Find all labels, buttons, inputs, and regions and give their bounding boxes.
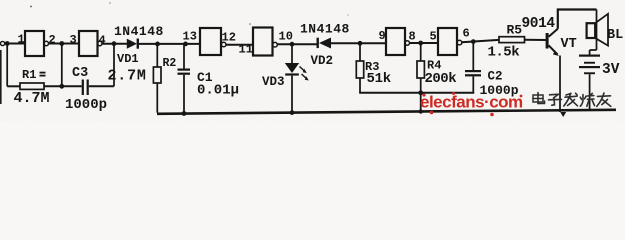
svg-text:5: 5 bbox=[430, 30, 437, 44]
svg-text:4.7M: 4.7M bbox=[14, 90, 50, 107]
node rail junction R4 bus bbox=[419, 109, 423, 113]
svg-text:elecfans·com: elecfans·com bbox=[420, 93, 523, 112]
capacitor C3 bbox=[59, 80, 114, 96]
svg-text:3V: 3V bbox=[602, 62, 620, 78]
svg-text:3: 3 bbox=[70, 33, 77, 47]
char shao bbox=[580, 93, 594, 106]
char zi bbox=[549, 94, 562, 105]
wire VD2 to gate5 in bbox=[331, 42, 386, 44]
diode VD2 1N4148 bbox=[317, 38, 332, 49]
wire VD1 to gate3 in bbox=[139, 43, 200, 45]
svg-text:1N4148: 1N4148 bbox=[114, 24, 164, 39]
node I junction on bottom bus bbox=[418, 90, 423, 95]
wire collector up and top rail to speaker bbox=[558, 10, 597, 29]
inverter gate U1a bbox=[25, 31, 49, 56]
wire gate6 out to R5 bbox=[462, 40, 499, 42]
svg-text:VD1: VD1 bbox=[117, 52, 139, 66]
svg-text:1: 1 bbox=[18, 33, 25, 47]
svg-text:C3: C3 bbox=[72, 66, 88, 81]
wire node B down to C3 right bbox=[113, 44, 115, 87]
label R1 star mark bbox=[40, 72, 46, 74]
node rail junction VD3 bbox=[290, 110, 295, 115]
watermark chinese characters bbox=[533, 93, 611, 107]
node G junction (R4 top) bbox=[418, 41, 423, 46]
wire R3/R4/C2 bottom bus bbox=[359, 92, 474, 94]
inverter gate U1e bbox=[386, 28, 409, 55]
svg-text:1.5k: 1.5k bbox=[488, 45, 520, 61]
wire node A down to C3 bbox=[61, 44, 63, 87]
inverter gate U1d bbox=[253, 28, 277, 56]
node D junction (C1 top) bbox=[183, 42, 188, 47]
inverter gate U1b bbox=[79, 31, 102, 56]
capacitor C2 bbox=[465, 42, 481, 93]
wire input to gate 1 bbox=[5, 43, 25, 45]
svg-text:13: 13 bbox=[183, 30, 197, 44]
svg-text:8: 8 bbox=[409, 30, 416, 44]
wire gate4 out to diode VD2 bbox=[277, 43, 316, 45]
node H junction (C2 top) bbox=[471, 39, 476, 44]
svg-text:9: 9 bbox=[379, 29, 386, 43]
resistor R1 bbox=[7, 83, 82, 89]
scan edge artifact left bbox=[0, 50, 2, 104]
svg-text:VT: VT bbox=[561, 37, 577, 52]
inverter gate U1f bbox=[438, 28, 462, 55]
battery 3V bbox=[579, 50, 600, 110]
svg-text:R2: R2 bbox=[163, 57, 177, 70]
wire gate5 out to gate6 in bbox=[410, 42, 439, 44]
wire gate2 out to diode VD1 bbox=[102, 43, 127, 45]
wire emitter down to ground rail bbox=[559, 56, 561, 113]
diode VD1 1N4148 bbox=[127, 39, 139, 49]
speaker BL bbox=[587, 10, 608, 51]
inverter gate U1c bbox=[200, 28, 226, 55]
noise speckles bbox=[30, 6, 32, 8]
svg-text:BL: BL bbox=[607, 28, 623, 43]
svg-text:1N4148: 1N4148 bbox=[300, 22, 350, 37]
svg-text:10: 10 bbox=[279, 30, 293, 44]
svg-text:VD3: VD3 bbox=[262, 75, 285, 89]
svg-text:2.7M: 2.7M bbox=[108, 68, 147, 85]
svg-text:2: 2 bbox=[49, 33, 56, 47]
svg-text:VD2: VD2 bbox=[311, 54, 334, 68]
wire gate1 out to gate2 in bbox=[49, 43, 80, 45]
node F junction (R3 top) bbox=[358, 41, 363, 46]
char you bbox=[597, 93, 611, 106]
node rail junction C1 bbox=[182, 111, 187, 116]
wire gate3 out to gate4 in bbox=[226, 44, 253, 46]
svg-text:12: 12 bbox=[222, 31, 236, 45]
svg-text:4: 4 bbox=[99, 34, 106, 48]
svg-text:200k: 200k bbox=[425, 71, 457, 87]
svg-text:0.01µ: 0.01µ bbox=[197, 83, 239, 99]
input terminal circle bbox=[1, 41, 5, 45]
node A junction bbox=[59, 41, 64, 46]
svg-text:R1: R1 bbox=[22, 68, 36, 82]
ground rail bbox=[157, 110, 616, 114]
svg-text:R5: R5 bbox=[507, 23, 523, 38]
svg-text:9014: 9014 bbox=[522, 16, 556, 32]
capacitor C1 bbox=[178, 44, 191, 114]
wire node I down to ground rail bbox=[420, 93, 422, 112]
svg-text:51k: 51k bbox=[367, 71, 391, 87]
svg-text:6: 6 bbox=[463, 27, 470, 41]
resistor R3 bbox=[356, 43, 363, 93]
resistor R2 bbox=[153, 44, 161, 113]
node B junction bbox=[112, 41, 117, 46]
node input junction bbox=[5, 41, 10, 46]
svg-text:1000p: 1000p bbox=[65, 97, 107, 113]
char fa bbox=[564, 93, 578, 106]
node C junction (R2 top) bbox=[155, 42, 160, 47]
LED VD3 bbox=[285, 44, 309, 113]
svg-text:C2: C2 bbox=[488, 70, 503, 84]
svg-text:11: 11 bbox=[239, 43, 253, 57]
resistor R4 bbox=[417, 43, 424, 93]
wire input node down to R1 bbox=[6, 44, 8, 87]
emitter arrow mark below rail bbox=[560, 112, 566, 117]
resistor R5 bbox=[499, 37, 546, 43]
char dian bbox=[533, 93, 545, 104]
watermark elecfans.com bbox=[420, 92, 523, 116]
node E junction (VD3 top) bbox=[290, 42, 295, 47]
transistor VT 9014 bbox=[546, 29, 559, 56]
